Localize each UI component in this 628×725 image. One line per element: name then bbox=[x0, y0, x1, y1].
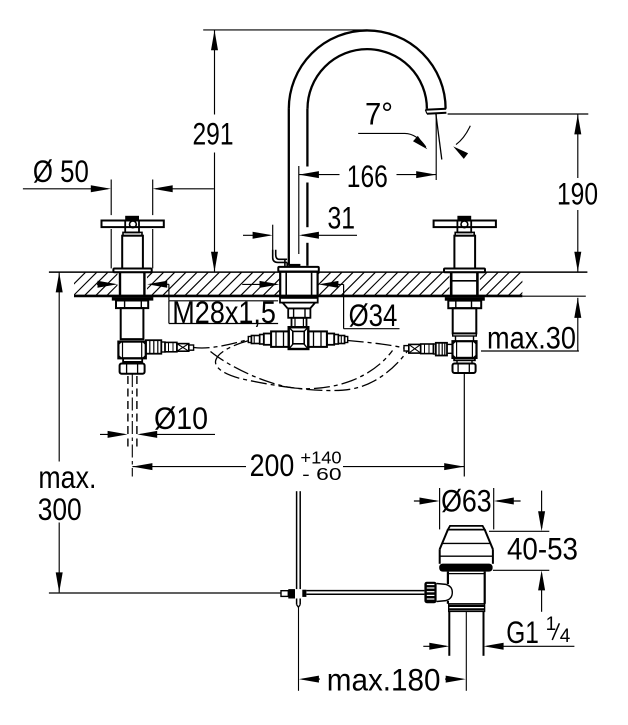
right valve inlet neck bbox=[447, 344, 453, 353]
right valve washer bbox=[445, 297, 485, 301]
svg-text:40-53: 40-53 bbox=[507, 531, 578, 566]
rod centerline below bbox=[298, 607, 300, 691]
left valve body tube bbox=[121, 308, 144, 339]
dim 31 line bbox=[243, 232, 357, 239]
spout inner arc bbox=[307, 49, 426, 109]
counter bottom edge thick bbox=[74, 295, 522, 298]
label M28 leader bbox=[97, 281, 169, 301]
left handle hub cap bbox=[125, 216, 139, 221]
spout left tube inner wall bbox=[306, 109, 308, 266]
left hose ferrule X bbox=[177, 344, 189, 352]
spout shank thread walls bbox=[286, 272, 311, 296]
hose big loop B bbox=[215, 341, 407, 391]
svg-text:Ø 50: Ø 50 bbox=[33, 154, 89, 189]
counter bottom line thin extension bbox=[522, 295, 585, 297]
dim label 200 bbox=[250, 448, 295, 483]
left handle hub bbox=[125, 221, 139, 233]
dim G114 line bbox=[423, 643, 574, 650]
dim label O63 bbox=[441, 484, 492, 519]
tee left cylinder bbox=[264, 334, 271, 345]
drain axis line bbox=[465, 611, 467, 690]
left valve outlet knurl bbox=[146, 340, 162, 354]
right handle hub pin bbox=[461, 221, 468, 228]
spout flow 7deg line bbox=[436, 114, 442, 160]
left valve shank bbox=[120, 272, 144, 296]
left valve outlet piece bbox=[165, 342, 177, 351]
dim 7deg leader bbox=[358, 133, 427, 149]
right handle crossbar bbox=[434, 221, 496, 228]
spout flow vertical ref bbox=[435, 114, 437, 181]
label M28x1,5 bbox=[172, 295, 276, 330]
svg-text:max.180: max.180 bbox=[327, 663, 441, 698]
svg-text:Ø10: Ø10 bbox=[154, 401, 208, 436]
right valve flange bbox=[454, 358, 475, 360]
svg-text:M28x1,5: M28x1,5 bbox=[172, 295, 276, 330]
left handle crossbar bbox=[102, 221, 164, 228]
right handle body bbox=[454, 236, 475, 269]
rod clamp tab bbox=[297, 599, 301, 608]
dim label O10 bbox=[154, 401, 208, 436]
drain cap bbox=[448, 526, 485, 530]
dim max30 line bbox=[574, 298, 581, 351]
spout base plate bbox=[278, 267, 319, 272]
drain knob knurled bbox=[424, 582, 436, 604]
dim 166-31 axis ext line bbox=[298, 166, 300, 254]
left handle body bbox=[122, 236, 143, 269]
dim 7deg arc arrow bbox=[453, 126, 470, 159]
left valve washer bbox=[112, 297, 154, 301]
hose big loop A bbox=[211, 351, 393, 389]
dim O10 line bbox=[100, 431, 215, 438]
left valve centerline bbox=[131, 374, 133, 477]
svg-text:max.: max. bbox=[38, 460, 96, 495]
pull rod horizontal bbox=[307, 591, 425, 595]
left handle hub pin bbox=[130, 221, 137, 228]
tee right ferrule bbox=[338, 336, 344, 344]
right valve inlet knurl bbox=[436, 343, 447, 356]
tee right cylinder bbox=[327, 334, 334, 345]
right valve shank bbox=[451, 272, 477, 296]
right valve block bbox=[453, 341, 477, 358]
dim O63 line bbox=[414, 498, 521, 505]
right valve inlet piece bbox=[421, 344, 434, 354]
spout shank nut bbox=[288, 308, 310, 317]
tee right ring bbox=[334, 335, 338, 345]
hose left to tee (direct) bbox=[194, 340, 249, 348]
right valve inlet ring bbox=[433, 344, 435, 354]
pull rod vertical bbox=[297, 491, 301, 589]
left valve block bbox=[118, 342, 145, 359]
left supply pipe dashed bbox=[128, 376, 137, 447]
rod clamp bbox=[281, 589, 306, 598]
dim label 40-53 bbox=[507, 531, 578, 566]
spout outlet end bbox=[425, 109, 447, 115]
tee left hose nut bbox=[271, 331, 289, 347]
svg-text:1: 1 bbox=[546, 614, 557, 635]
dim 31 ext line bbox=[272, 225, 274, 250]
dim max30 bottom ref bbox=[481, 350, 579, 352]
right valve neck3 bbox=[457, 360, 472, 363]
dim 200 line bbox=[132, 463, 464, 470]
right valve bottom nut bbox=[453, 364, 476, 374]
svg-text:Ø63: Ø63 bbox=[441, 484, 492, 519]
left valve bottom nut bbox=[120, 364, 145, 374]
right valve body tube bbox=[453, 308, 477, 333]
label O34 frame bbox=[344, 284, 400, 328]
label M28x1,5 frame bbox=[169, 301, 278, 324]
drain o-ring bbox=[439, 564, 492, 572]
right hose ferrule X bbox=[409, 344, 421, 353]
dim max300 line bbox=[56, 272, 63, 592]
spout shank taper bbox=[283, 303, 316, 309]
left valve top nut bbox=[116, 301, 148, 309]
tee left tip bbox=[248, 337, 251, 343]
dim 40-53 line bbox=[538, 491, 545, 612]
spout tube bottom dark band bbox=[289, 264, 301, 267]
left valve outlet ring bbox=[161, 342, 165, 352]
drain bottom band bbox=[449, 604, 485, 612]
dim 40-53 ref top bbox=[489, 530, 549, 532]
label O34 leader bbox=[242, 281, 343, 288]
dim 40-53 ref bottom bbox=[493, 569, 549, 571]
left valve base plate bbox=[113, 269, 151, 273]
dim O63 ext lines bbox=[440, 488, 494, 529]
right hose tip bbox=[404, 346, 409, 351]
dim 166 line bbox=[299, 171, 436, 178]
dim label max30 bbox=[487, 320, 576, 355]
dim label O50 bbox=[33, 154, 89, 189]
dim label G114 bbox=[506, 614, 571, 650]
right valve top nut bbox=[448, 301, 481, 309]
dim 291 line bbox=[211, 30, 218, 272]
tee right tip bbox=[345, 337, 348, 343]
dim label 7deg bbox=[365, 96, 393, 131]
drain body bbox=[448, 572, 485, 604]
dim label 166 bbox=[347, 159, 388, 194]
spout base L-profile bbox=[273, 250, 288, 268]
dim label max180 bbox=[327, 663, 441, 698]
spout lower neck bbox=[292, 318, 307, 327]
svg-text:7°: 7° bbox=[365, 96, 393, 131]
svg-text:max.30: max.30 bbox=[487, 320, 576, 355]
left valve neck2 bbox=[126, 362, 140, 364]
tee left ring bbox=[260, 335, 264, 345]
left valve flange bbox=[123, 358, 142, 362]
right handle hub bbox=[457, 221, 471, 233]
dim 291 top ref line bbox=[203, 29, 367, 31]
svg-text:190: 190 bbox=[557, 176, 598, 211]
dim 190 ref line top bbox=[448, 113, 589, 115]
svg-text:- 60: - 60 bbox=[302, 464, 342, 484]
drain tailpipe bbox=[449, 611, 483, 655]
hose right to tee (direct) bbox=[348, 341, 404, 349]
spout left tube outer wall bbox=[288, 109, 290, 266]
dim O50 line right bbox=[153, 185, 214, 192]
dim max300 bottom ref bbox=[49, 592, 281, 594]
drain cone bbox=[440, 530, 493, 564]
svg-text:291: 291 bbox=[193, 116, 234, 151]
center tee block bbox=[289, 327, 309, 349]
label O34 bbox=[349, 298, 398, 333]
svg-text:Ø34: Ø34 bbox=[349, 298, 398, 333]
right valve neck bbox=[456, 336, 474, 341]
svg-text:200: 200 bbox=[250, 448, 295, 483]
dim label 190 bbox=[557, 176, 598, 211]
spout shank washer bbox=[280, 298, 318, 303]
dim max180 line bbox=[299, 676, 466, 683]
svg-text:G1: G1 bbox=[506, 615, 539, 650]
dim O50 ext lines bbox=[111, 180, 153, 269]
svg-text:166: 166 bbox=[347, 159, 388, 194]
left valve band bbox=[121, 338, 144, 340]
right valve band bbox=[453, 333, 477, 336]
dim label 291 bbox=[193, 116, 234, 151]
dim label 200 tol bbox=[300, 448, 341, 485]
tee left ferrule bbox=[251, 336, 259, 344]
dim label 31 bbox=[328, 201, 356, 236]
counter hatching bbox=[62, 272, 543, 296]
spout outer arc bbox=[289, 30, 446, 108]
spout shank hole walls bbox=[280, 272, 317, 296]
svg-text:31: 31 bbox=[328, 201, 356, 236]
right valve tail line bbox=[463, 374, 465, 477]
dim 190 line bbox=[574, 114, 581, 272]
svg-text:4: 4 bbox=[560, 626, 571, 647]
drain knob neck bbox=[437, 584, 453, 602]
dim label max300 bbox=[38, 460, 97, 527]
counter top line bbox=[49, 271, 588, 273]
right valve base plate bbox=[444, 269, 485, 273]
dim O50 line left bbox=[23, 185, 111, 192]
tee right hose nut bbox=[308, 331, 327, 347]
left hose tip bbox=[189, 345, 194, 350]
left handle step bbox=[123, 232, 142, 235]
svg-text:300: 300 bbox=[38, 492, 82, 527]
right handle hub cap bbox=[457, 216, 471, 221]
right handle step bbox=[455, 232, 474, 235]
